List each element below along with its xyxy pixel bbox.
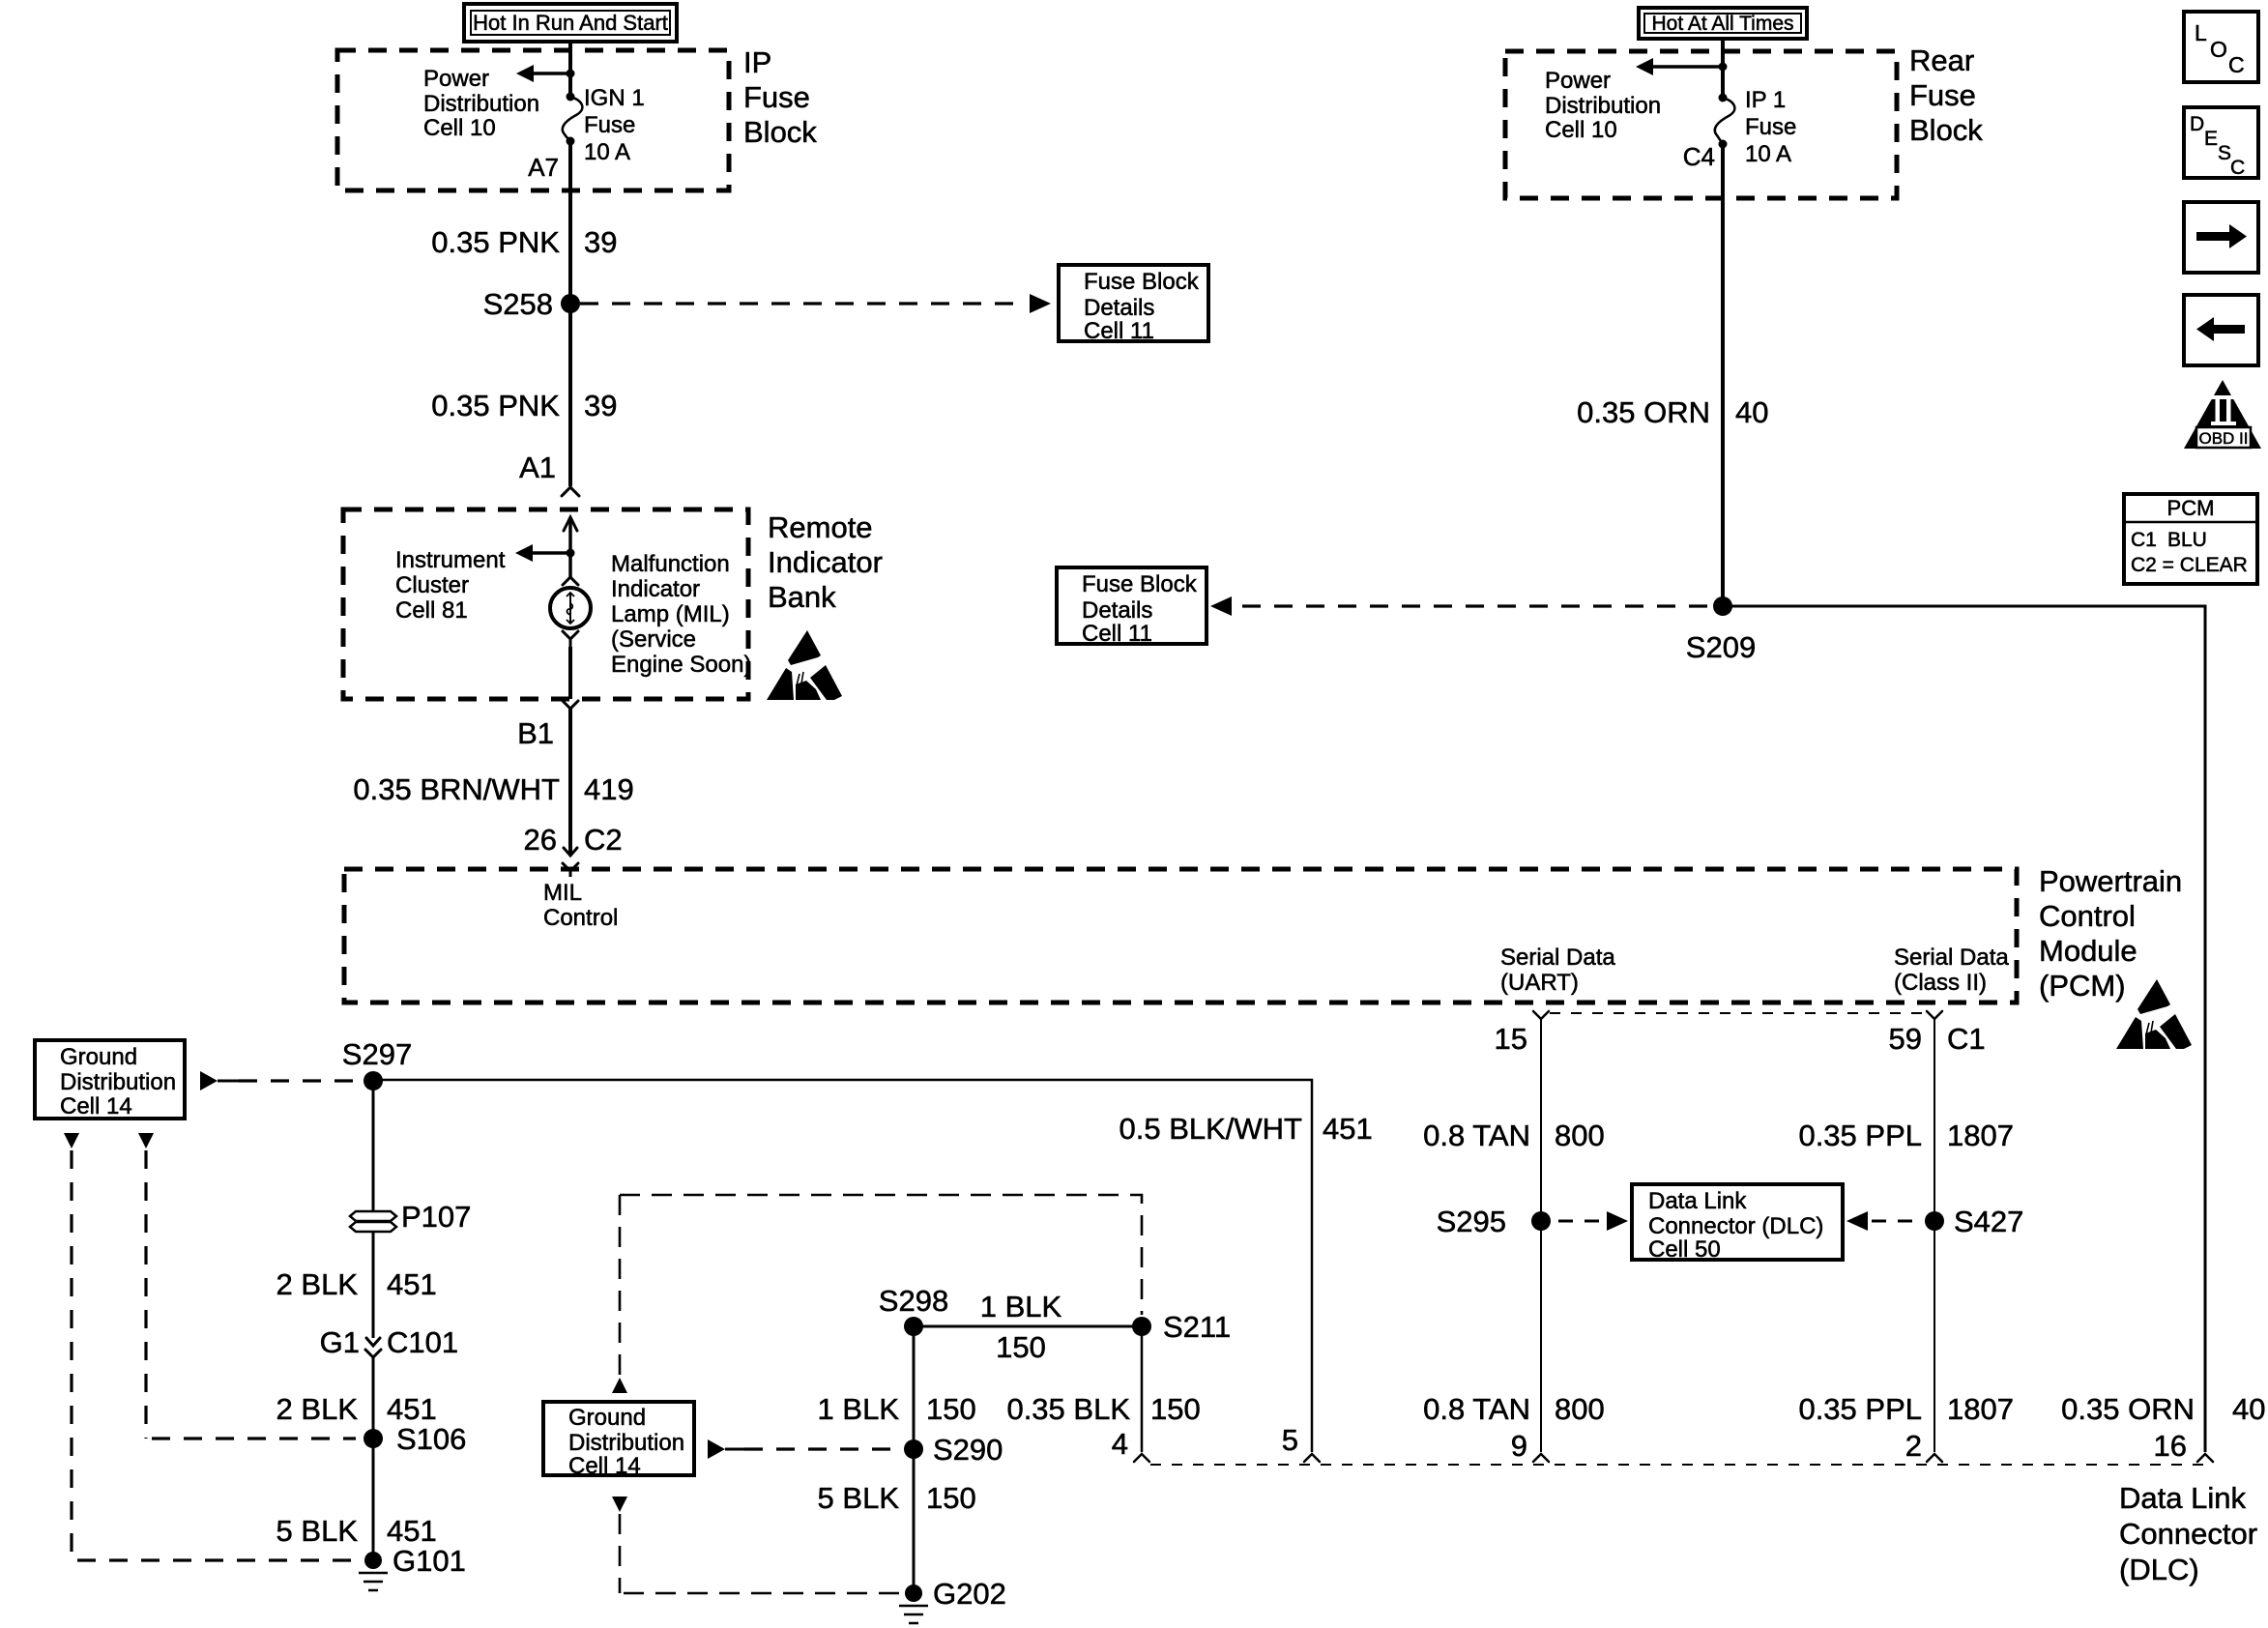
svg-text:15: 15 [1495, 1022, 1527, 1056]
svg-text:451: 451 [387, 1392, 437, 1426]
svg-text:1807: 1807 [1947, 1392, 2014, 1426]
splice S295 [1531, 1211, 1551, 1231]
svg-text:OBD II: OBD II [2198, 429, 2248, 448]
fuse IP 1 10A symbol [1715, 94, 1735, 149]
label: Powertrain Control Module (PCM) [2039, 864, 2182, 1003]
svg-text:Connector (DLC): Connector (DLC) [1648, 1213, 1823, 1239]
svg-text:Indicator: Indicator [768, 545, 883, 579]
box: Ground Distribution Cell 14 (right) [543, 1402, 694, 1479]
connector chevron DLC pin 4 [1134, 1454, 1149, 1462]
svg-text:Module: Module [2039, 934, 2137, 968]
ground G101 [359, 1552, 388, 1590]
wire from S297 down to P107 [372, 1081, 375, 1211]
sidebar DESC box [2184, 107, 2258, 179]
wire label 2 BLK 451 (lower) [276, 1392, 437, 1426]
svg-text:Powertrain: Powertrain [2039, 864, 2182, 898]
dashed pointer S295 to DLC box [1558, 1211, 1628, 1231]
svg-text:(PCM): (PCM) [2039, 969, 2126, 1003]
svg-text:S211: S211 [1163, 1310, 1231, 1344]
splice S106 [363, 1429, 383, 1448]
label box: Hot At All Times [1639, 8, 1807, 39]
svg-text:S295: S295 [1437, 1205, 1506, 1238]
svg-text:0.35 ORN: 0.35 ORN [1577, 395, 1710, 429]
splice S290 [904, 1439, 923, 1459]
svg-text:Distribution: Distribution [568, 1430, 684, 1456]
svg-text:0.35 PNK: 0.35 PNK [431, 225, 560, 259]
splice S258 [561, 294, 580, 313]
thin dashed DLC connector boundary line [1150, 1464, 2214, 1466]
wire label 1 BLK / 150 (horizontal) [980, 1290, 1062, 1364]
svg-text:Ground: Ground [60, 1044, 137, 1070]
svg-text:2 BLK: 2 BLK [276, 1267, 359, 1301]
wire label 0.35 PNK 39 (upper) [431, 225, 617, 259]
dashed pointer Ground Distribution to S297 [200, 1071, 362, 1090]
wire: 0.35 BLK 150 from S211 down to DLC pin 4 [1141, 1326, 1144, 1452]
label: Rear Fuse Block [1909, 44, 1983, 147]
svg-text:0.35 ORN: 0.35 ORN [2061, 1392, 2195, 1426]
svg-text:Cell 14: Cell 14 [568, 1453, 641, 1479]
svg-text:Indicator: Indicator [611, 576, 700, 602]
wire: 2 BLK 451 from P107 to C101 [372, 1232, 375, 1338]
wire: 1 BLK 150 from S298 down to S290 [913, 1326, 916, 1593]
svg-text:Cell 11: Cell 11 [1084, 318, 1154, 344]
svg-text:40: 40 [2232, 1392, 2265, 1426]
svg-text:S290: S290 [933, 1433, 1003, 1467]
svg-text:Cell 11: Cell 11 [1082, 621, 1152, 647]
box: Fuse Block Details Cell 11 (lower) [1057, 567, 1207, 647]
wire label 0.8 TAN 800 (lower) [1423, 1392, 1605, 1426]
inline connector G1 / C101 [365, 1338, 381, 1357]
svg-text:A7: A7 [528, 153, 559, 182]
svg-text:Cell 14: Cell 14 [60, 1093, 132, 1119]
svg-text:B1: B1 [517, 716, 554, 750]
svg-text:800: 800 [1555, 1119, 1605, 1152]
wire label 0.35 BRN/WHT 419 [353, 772, 633, 806]
svg-text:C101: C101 [387, 1325, 458, 1359]
svg-text:Block: Block [1909, 113, 1983, 147]
ESD symbol at PCM [2116, 979, 2192, 1049]
svg-text:Hot In Run And Start: Hot In Run And Start [473, 11, 668, 35]
svg-text:1807: 1807 [1947, 1119, 2014, 1152]
text: Power Distribution Cell 10 (IP) [423, 66, 539, 141]
wire label 0.35 PNK 39 (lower) [431, 389, 617, 422]
svg-text:Fuse: Fuse [743, 80, 810, 114]
connector chevron PCM pin 15 [1533, 1011, 1549, 1019]
connector chevron DLC pin 5 [1304, 1454, 1320, 1462]
svg-text:16: 16 [2154, 1429, 2187, 1463]
svg-text:451: 451 [387, 1514, 437, 1548]
svg-text:S106: S106 [396, 1422, 466, 1456]
connector chevron at B1 [563, 701, 578, 709]
svg-text:Cluster: Cluster [395, 572, 469, 598]
svg-text:10 A: 10 A [584, 139, 630, 165]
svg-text:Fuse Block: Fuse Block [1084, 269, 1200, 295]
svg-text:Power: Power [423, 66, 489, 92]
text: Serial Data (UART) [1500, 945, 1615, 996]
dashed pointer S209 to Fuse Block Details [1210, 596, 1713, 616]
svg-text:4: 4 [1112, 1427, 1128, 1461]
svg-text:Rear: Rear [1909, 44, 1974, 77]
svg-text:0.35 PPL: 0.35 PPL [1798, 1392, 1922, 1426]
svg-text:Distribution: Distribution [1545, 93, 1661, 119]
svg-text:Fuse: Fuse [584, 112, 635, 138]
svg-text:Distribution: Distribution [60, 1069, 176, 1095]
dashed ground path to S106 [146, 1150, 356, 1439]
box: Data Link Connector (DLC) Cell 50 [1632, 1184, 1843, 1263]
box: Fuse Block Details Cell 11 (upper) [1059, 265, 1208, 344]
text: Power Distribution Cell 10 (rear) [1545, 68, 1661, 143]
svg-text:(Class II): (Class II) [1894, 970, 1987, 996]
svg-text:10 A: 10 A [1745, 141, 1791, 167]
wire: 0.35 ORN 40 from fuse C4 down to S209 [1721, 144, 1725, 606]
svg-text:BLU: BLU [2167, 529, 2207, 551]
svg-text:A1: A1 [519, 451, 556, 484]
wire: 0.5 BLK/WHT 451 from S297 right to DLC pin 5 [373, 1080, 1312, 1452]
svg-text:39: 39 [584, 389, 617, 422]
svg-text:419: 419 [584, 772, 634, 806]
wire: 2 BLK 451 from C101 through S106 to G101 [372, 1357, 375, 1560]
down arrowhead below Ground Distribution box (right) [612, 1497, 627, 1512]
sidebar back arrow box [2184, 295, 2258, 365]
text: Malfunction Indicator Lamp (MIL) (Service Engine Soon) [611, 551, 751, 678]
Rear Fuse Block dashed box [1505, 51, 1897, 198]
svg-text:0.8 TAN: 0.8 TAN [1423, 1119, 1530, 1152]
svg-text:Connector: Connector [2119, 1517, 2257, 1551]
arrow branch to Instrument Cluster [515, 544, 575, 562]
svg-text:(Service: (Service [611, 626, 696, 653]
svg-text:0.35 PPL: 0.35 PPL [1798, 1119, 1922, 1152]
dashed pointer S427 to DLC box [1846, 1211, 1918, 1231]
wire label 5 BLK 150 [818, 1481, 976, 1515]
junction dot in Rear fuse block [1719, 63, 1728, 72]
svg-text:Cell 10: Cell 10 [1545, 117, 1617, 143]
wire label 2 BLK 451 (upper) [276, 1267, 437, 1301]
wire from S209 right and down to DLC pin 16 [1723, 606, 2205, 1452]
wire: 0.35 PPL 1807 from PCM pin 59 to DLC pin 2 [1934, 1019, 1935, 1452]
dashed ground path upper segment (S298 group) [619, 1195, 622, 1375]
svg-text:G101: G101 [393, 1544, 466, 1578]
ground G202 [899, 1584, 928, 1623]
svg-text:Engine Soon): Engine Soon) [611, 652, 751, 678]
svg-text:59: 59 [1889, 1022, 1922, 1056]
svg-text:S209: S209 [1686, 630, 1756, 664]
wire label 0.35 ORN 40 (lower) [2061, 1392, 2265, 1426]
dashed harness box around S298 group [620, 1195, 1142, 1315]
label box: Hot In Run And Start [464, 4, 677, 42]
wire: 1 BLK 150 from S298 to S211 [914, 1325, 1142, 1328]
svg-text:(DLC): (DLC) [2119, 1553, 2199, 1586]
wire: feed from Hot In Run And Start into fuse [568, 42, 572, 97]
svg-text:Details: Details [1084, 295, 1154, 321]
svg-text:S: S [2218, 142, 2231, 164]
IP Fuse Block dashed box [337, 50, 729, 190]
svg-text:Serial Data: Serial Data [1894, 945, 2009, 971]
connector chevron DLC pin 2 [1927, 1454, 1942, 1462]
svg-text:Cell 10: Cell 10 [423, 115, 496, 141]
svg-text:C1: C1 [2131, 529, 2157, 551]
svg-text:Instrument: Instrument [395, 547, 506, 573]
wire from lamp to B1 [568, 647, 572, 699]
sidebar forward arrow box [2184, 202, 2258, 273]
dashed pointer S258 to Fuse Block Details [580, 294, 1051, 313]
svg-text:Cell 50: Cell 50 [1648, 1236, 1721, 1263]
svg-text:451: 451 [387, 1267, 437, 1301]
pin labels 26 / C2 [524, 823, 623, 857]
svg-text:0.35 BLK: 0.35 BLK [1006, 1392, 1130, 1426]
thin dashed connector line C1 between pins 15 and 59 [1550, 1012, 1926, 1014]
splice S209 [1713, 596, 1732, 616]
svg-text:40: 40 [1735, 395, 1768, 429]
wire label 5 BLK 451 [276, 1514, 437, 1548]
wire label 0.5 BLK/WHT 451 [1119, 1112, 1373, 1146]
svg-text:Fuse Block: Fuse Block [1082, 571, 1198, 597]
wire label 0.8 TAN 800 (upper) [1423, 1119, 1605, 1152]
svg-text:S297: S297 [342, 1037, 412, 1071]
PCM connector legend box [2124, 494, 2257, 584]
text: Serial Data (Class II) [1894, 945, 2009, 996]
PCM dashed box [344, 869, 2017, 1003]
svg-text:1 BLK: 1 BLK [980, 1290, 1062, 1323]
text: MIL Control [543, 880, 618, 931]
wire label 1 BLK 150 (vertical) [818, 1392, 976, 1426]
svg-text:E: E [2204, 128, 2218, 150]
connector chevron PCM pin 59 [1927, 1011, 1942, 1019]
splice S211 [1132, 1317, 1151, 1336]
label: Remote Indicator Bank [768, 510, 883, 614]
svg-text:Fuse: Fuse [1745, 114, 1796, 140]
dashed ground path to G202 [620, 1514, 899, 1593]
connector chevron above MIL lamp [563, 577, 578, 585]
svg-text:800: 800 [1555, 1392, 1605, 1426]
svg-text:IGN 1: IGN 1 [584, 85, 645, 111]
svg-text:150: 150 [996, 1330, 1046, 1364]
svg-text:Fuse: Fuse [1909, 78, 1976, 112]
svg-text:IP: IP [743, 45, 771, 79]
dashed pointer Ground Distribution to S290 [708, 1439, 899, 1459]
svg-text:C: C [2230, 157, 2245, 179]
connector chevron DLC pin 9 [1533, 1454, 1549, 1462]
ESD symbol at Remote Indicator Bank [767, 630, 842, 700]
svg-text:Bank: Bank [768, 580, 836, 614]
svg-text:Ground: Ground [568, 1405, 646, 1431]
svg-text:O: O [2210, 37, 2227, 62]
svg-text:Power: Power [1545, 68, 1611, 94]
arrow branch to Power Distribution (rear) [1636, 58, 1723, 75]
wire: 0.35 BRN/WHT 419 from B1 to C2 [568, 709, 572, 855]
svg-text:Control: Control [2039, 899, 2136, 933]
svg-text:IP 1: IP 1 [1745, 87, 1786, 113]
connector chevron at A1 [562, 487, 579, 496]
svg-text:(UART): (UART) [1500, 970, 1579, 996]
svg-text:451: 451 [1323, 1112, 1373, 1146]
svg-text:PCM: PCM [2167, 496, 2215, 520]
svg-text:2 BLK: 2 BLK [276, 1392, 359, 1426]
down arrowheads below Ground Distribution box [64, 1133, 154, 1148]
svg-text:39: 39 [584, 225, 617, 259]
MIL lamp symbol [550, 588, 591, 628]
wire label 0.35 ORN 40 [1577, 395, 1768, 429]
svg-text:150: 150 [1150, 1392, 1201, 1426]
text: IP 1 Fuse 10 A [1745, 87, 1796, 167]
svg-text:S258: S258 [483, 287, 553, 321]
grommet P107 [350, 1211, 396, 1232]
dashed ground path to G101 [72, 1150, 358, 1560]
connector chevron below MIL lamp [563, 631, 578, 647]
arrow branch to Power Distribution [516, 65, 570, 82]
splice S297 [363, 1071, 383, 1090]
pin labels G1 / C101 [320, 1325, 458, 1359]
svg-text:5: 5 [1282, 1423, 1298, 1457]
Remote Indicator Bank dashed box [343, 509, 748, 699]
connector chevron DLC pin 16 [2197, 1454, 2213, 1462]
svg-text:1 BLK: 1 BLK [818, 1392, 900, 1426]
wire label 0.35 PPL 1807 (upper) [1798, 1119, 2014, 1152]
text: Instrument Cluster Cell 81 [395, 547, 506, 624]
splice S298 [904, 1317, 923, 1336]
svg-text:C: C [2228, 52, 2245, 77]
svg-text:150: 150 [926, 1392, 976, 1426]
svg-text:0.5 BLK/WHT: 0.5 BLK/WHT [1119, 1112, 1303, 1146]
svg-text:150: 150 [926, 1481, 976, 1515]
svg-text:Serial Data: Serial Data [1500, 945, 1615, 971]
pin labels 59 / C1 [1889, 1022, 1986, 1056]
svg-text:Malfunction: Malfunction [611, 551, 730, 577]
svg-text:P107: P107 [401, 1200, 471, 1234]
splice S427 [1925, 1211, 1944, 1231]
svg-text:0.35 BRN/WHT: 0.35 BRN/WHT [353, 772, 560, 806]
svg-text:L: L [2195, 20, 2207, 45]
svg-text:D: D [2190, 113, 2204, 135]
sidebar OBD II triangle [2184, 380, 2261, 449]
svg-text:C2: C2 [584, 823, 623, 857]
svg-text:Distribution: Distribution [423, 91, 539, 117]
wire label 0.35 PPL 1807 (lower) [1798, 1392, 2014, 1426]
wire with up arrow inside Remote Indicator Bank [564, 517, 577, 577]
wire: 0.35 PNK 39 from fuse A7 down to A1 [568, 141, 572, 486]
svg-text:G202: G202 [933, 1577, 1006, 1611]
svg-text:C4: C4 [1683, 142, 1715, 171]
svg-text:Data Link: Data Link [1648, 1188, 1747, 1214]
junction dot in IP fuse block [567, 70, 575, 78]
label: Data Link Connector (DLC) [2119, 1481, 2257, 1586]
svg-text:Control: Control [543, 905, 618, 931]
svg-text:S427: S427 [1954, 1205, 2023, 1238]
svg-text:Remote: Remote [768, 510, 873, 544]
svg-text:MIL: MIL [543, 880, 582, 906]
sidebar LOC box [2184, 12, 2258, 82]
svg-text:0.35 PNK: 0.35 PNK [431, 389, 560, 422]
connector chevrons at C2 [563, 848, 578, 877]
label: IP Fuse Block [743, 45, 817, 149]
svg-text:9: 9 [1511, 1429, 1527, 1463]
svg-text:Hot At All Times: Hot At All Times [1651, 13, 1793, 35]
fuse IGN 1 10A symbol [563, 93, 583, 146]
svg-text:2: 2 [1905, 1429, 1922, 1463]
svg-text:Details: Details [1082, 597, 1152, 624]
wire: 0.8 TAN 800 from PCM pin 15 to DLC pin 9 [1540, 1019, 1542, 1452]
box: Ground Distribution Cell 14 (left) [35, 1040, 185, 1119]
svg-text:S298: S298 [879, 1284, 948, 1318]
svg-text:G1: G1 [320, 1325, 360, 1359]
svg-text:Block: Block [743, 115, 817, 149]
svg-text:Data Link: Data Link [2119, 1481, 2246, 1515]
text: IGN 1 Fuse 10 A [584, 85, 645, 165]
svg-text:C1: C1 [1947, 1022, 1986, 1056]
svg-text:5 BLK: 5 BLK [818, 1481, 900, 1515]
svg-text:0.8 TAN: 0.8 TAN [1423, 1392, 1530, 1426]
wire: feed from Hot At All Times into fuse [1721, 39, 1725, 98]
svg-text:5 BLK: 5 BLK [276, 1514, 359, 1548]
svg-text:C2 = CLEAR: C2 = CLEAR [2131, 554, 2248, 576]
svg-text:Lamp (MIL): Lamp (MIL) [611, 601, 730, 627]
svg-text:26: 26 [524, 823, 557, 857]
wire label 0.35 BLK 150 [1006, 1392, 1200, 1426]
up arrowhead above Ground Distribution box (right) [612, 1378, 627, 1393]
svg-text:Cell 81: Cell 81 [395, 597, 468, 624]
